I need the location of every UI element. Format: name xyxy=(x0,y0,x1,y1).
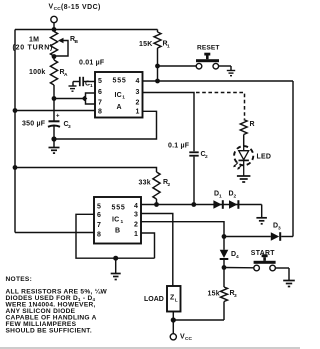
load ZL xyxy=(144,286,181,312)
svg-text:2: 2 xyxy=(136,100,140,107)
diode D2 xyxy=(229,191,240,209)
wire pin 3 IC B to load xyxy=(141,214,173,287)
svg-text:IC: IC xyxy=(112,217,119,224)
svg-text:2: 2 xyxy=(134,222,138,229)
node D3/D4 junction xyxy=(222,234,227,239)
svg-text:2: 2 xyxy=(168,182,171,188)
svg-text:555: 555 xyxy=(113,78,127,85)
op... IC A 555 timer xyxy=(95,72,143,118)
wire pin 6 IC B loop xyxy=(76,214,155,258)
svg-text:1: 1 xyxy=(136,109,140,116)
LED xyxy=(233,146,271,176)
potentiometer RB 1M 20-turn xyxy=(13,32,79,57)
node left rail / pin8A xyxy=(13,108,18,113)
svg-text:555: 555 xyxy=(112,205,126,212)
resistor R (LED) xyxy=(240,120,254,147)
wire left rail xyxy=(14,30,16,233)
svg-text:B: B xyxy=(115,228,120,235)
svg-text:2: 2 xyxy=(205,154,208,160)
svg-text:4: 4 xyxy=(236,254,239,260)
pushbutton RESET xyxy=(158,45,232,71)
svg-text:(20 TURN): (20 TURN) xyxy=(13,45,54,52)
wire pin 4 IC B line xyxy=(141,204,262,206)
svg-text:1: 1 xyxy=(121,219,124,225)
svg-text:L: L xyxy=(175,297,178,303)
wire pin 1 IC B xyxy=(141,233,155,258)
ground D1 D2 xyxy=(256,205,267,224)
svg-text:R: R xyxy=(250,121,255,128)
node C2/pin4B junction xyxy=(191,202,196,207)
svg-text:350 µF: 350 µF xyxy=(22,121,46,128)
svg-text:+: + xyxy=(56,114,60,120)
svg-text:8: 8 xyxy=(97,232,101,239)
svg-text:7: 7 xyxy=(97,222,101,229)
resistor RA 100k xyxy=(29,57,68,121)
svg-text:1: 1 xyxy=(134,231,138,238)
svg-text:A: A xyxy=(64,72,68,78)
power terminal Vcc top xyxy=(49,4,101,30)
resistor R1 15K xyxy=(139,30,170,82)
wire pin 2 IC B xyxy=(141,222,224,237)
pushbutton START xyxy=(224,250,289,281)
scan edge artifact xyxy=(0,347,300,349)
svg-text:CC: CC xyxy=(185,336,192,342)
svg-text:SHOULD BE SUFFICIENT.: SHOULD BE SUFFICIENT. xyxy=(6,328,92,335)
svg-text:100k: 100k xyxy=(29,69,45,76)
wire dashed LED branch xyxy=(196,93,245,120)
wire right rail xyxy=(292,81,294,237)
node timing junction xyxy=(52,96,57,101)
svg-text:5: 5 xyxy=(98,78,102,85)
svg-text:1: 1 xyxy=(122,95,125,101)
ground LED xyxy=(237,175,251,177)
diode D4 xyxy=(220,237,239,268)
wire left rail to R2 xyxy=(15,168,157,173)
svg-text:3: 3 xyxy=(136,89,140,96)
svg-text:7: 7 xyxy=(98,100,102,107)
ground RESET xyxy=(227,70,235,72)
wire pin 8 IC B from left rail xyxy=(15,232,94,234)
notes text xyxy=(6,276,108,335)
ground START xyxy=(283,280,295,282)
node IC B ground junction xyxy=(113,256,118,261)
wire top rail xyxy=(15,29,158,31)
ground IC B xyxy=(111,258,121,279)
svg-text:RESET: RESET xyxy=(197,45,219,52)
svg-text:START: START xyxy=(251,250,275,257)
svg-text:6: 6 xyxy=(98,89,102,96)
capacitor C1 0.01uF xyxy=(73,60,105,90)
diode D3 xyxy=(271,223,293,241)
svg-text:1: 1 xyxy=(90,83,93,89)
svg-text:3: 3 xyxy=(68,124,71,130)
svg-text:3: 3 xyxy=(234,293,237,299)
svg-text:5: 5 xyxy=(97,204,101,211)
capacitor C3 350uF electrolytic xyxy=(22,114,71,140)
svg-text:0.01 µF: 0.01 µF xyxy=(79,60,105,67)
wire C3 to IC A pin 1 xyxy=(54,111,157,139)
svg-text:6: 6 xyxy=(97,212,101,219)
node R1/reset junction xyxy=(155,64,160,69)
ground C3 xyxy=(49,139,60,153)
wire loop IC A pins 6-7 xyxy=(86,93,96,104)
node RB/RA junction xyxy=(52,54,57,59)
resistor R3 15k xyxy=(208,268,238,321)
node R2/pin4B junction xyxy=(154,202,159,207)
node C3 bottom junction xyxy=(51,136,56,141)
svg-text:15k: 15k xyxy=(208,291,220,298)
svg-text:LED: LED xyxy=(257,154,272,161)
node pin4A junction xyxy=(155,79,160,84)
wire bottom rail xyxy=(173,319,224,321)
svg-text:1: 1 xyxy=(219,193,222,199)
svg-text:1M: 1M xyxy=(29,37,39,44)
wire to D3 xyxy=(224,236,271,238)
svg-text:2: 2 xyxy=(234,193,237,199)
wire ZL to bottom rail xyxy=(172,312,174,321)
junction at IC A pins 6-7 loop xyxy=(82,96,88,102)
svg-text:33k: 33k xyxy=(139,180,151,187)
svg-text:3: 3 xyxy=(278,225,281,231)
IC B 555 timer xyxy=(94,197,141,244)
svg-text:A: A xyxy=(117,104,122,111)
svg-text:4: 4 xyxy=(134,203,138,210)
svg-text:(8-15 VDC): (8-15 VDC) xyxy=(61,4,101,11)
resistor R2 33k xyxy=(139,172,171,205)
svg-text:LOAD: LOAD xyxy=(144,296,164,303)
node START junction xyxy=(222,265,227,270)
svg-text:4: 4 xyxy=(136,78,140,85)
wire pin 8 IC A rail xyxy=(15,110,95,112)
power terminal Vcc bottom xyxy=(170,320,192,342)
diode D1 xyxy=(213,191,223,209)
svg-text:IC: IC xyxy=(115,92,122,99)
svg-text:1: 1 xyxy=(167,43,170,49)
node bottom junction xyxy=(171,317,176,322)
svg-text:8: 8 xyxy=(98,109,102,116)
wire pin 3 IC A xyxy=(143,93,195,152)
wire pin 4 IC A to right rail xyxy=(143,80,294,82)
svg-text:NOTES:: NOTES: xyxy=(6,276,33,283)
svg-text:0.1 µF: 0.1 µF xyxy=(168,143,190,150)
node Vcc junction xyxy=(52,27,57,32)
svg-text:15K: 15K xyxy=(139,41,153,48)
wire timing node to pins 6-7 xyxy=(54,98,86,100)
svg-text:3: 3 xyxy=(134,212,138,219)
ground C1 xyxy=(69,82,77,92)
node left rail R2 junction xyxy=(13,165,18,170)
capacitor C2 0.1uF xyxy=(168,143,208,205)
svg-text:B: B xyxy=(75,39,79,45)
